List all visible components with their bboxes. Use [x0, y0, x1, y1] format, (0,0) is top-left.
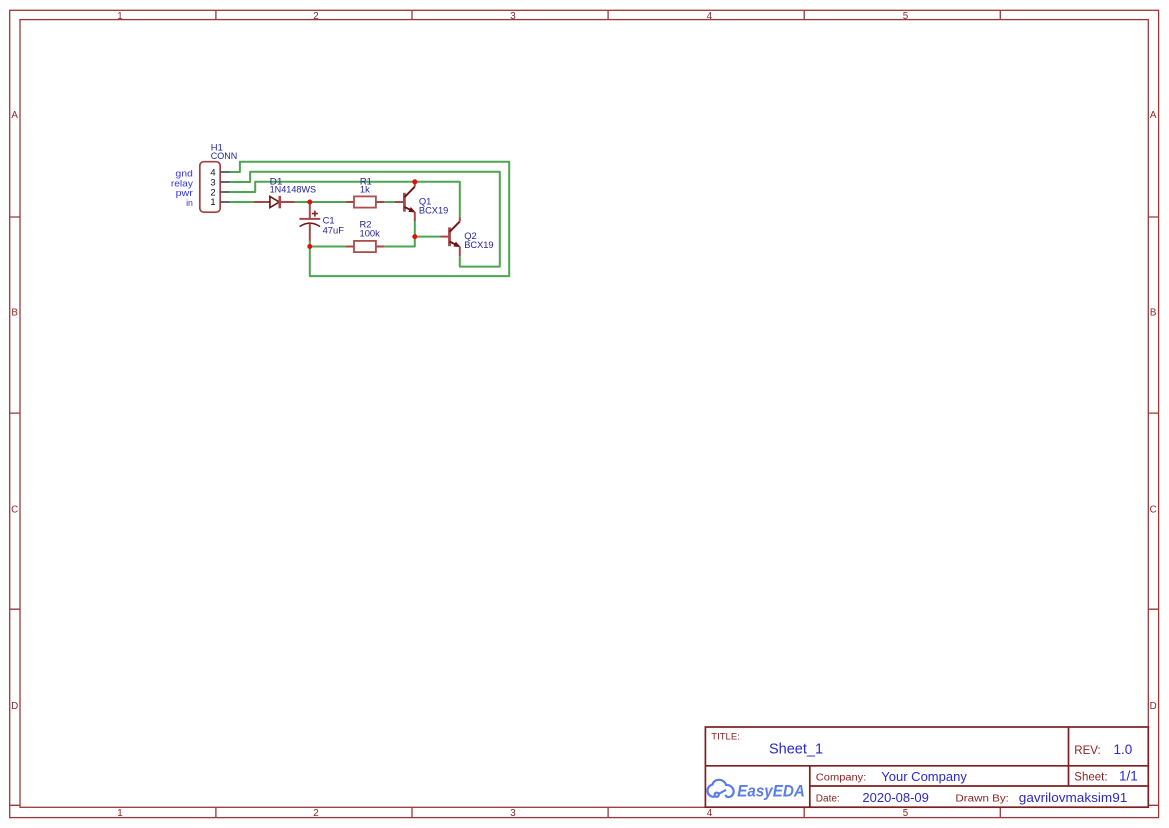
svg-text:Sheet:: Sheet: [1074, 771, 1107, 783]
junction node at Q1 collector / pwr line [412, 179, 417, 184]
pin 2 stub [220, 191, 229, 193]
junction node at C1 bottom / R2 left / gnd rail [307, 244, 312, 249]
transistor Q1 [395, 182, 449, 222]
svg-text:47uF: 47uF [323, 225, 345, 236]
svg-text:EasyEDA: EasyEDA [737, 782, 805, 801]
svg-text:in: in [186, 198, 193, 209]
pin 3 stub [220, 181, 229, 183]
svg-text:1/1: 1/1 [1119, 769, 1138, 784]
svg-text:Your Company: Your Company [881, 769, 967, 784]
svg-text:REV:: REV: [1074, 745, 1100, 757]
svg-text:Date:: Date: [816, 793, 840, 804]
svg-text:gavrilovmaksim91: gavrilovmaksim91 [1019, 790, 1128, 805]
svg-text:2: 2 [313, 11, 318, 22]
svg-text:Sheet_1: Sheet_1 [769, 742, 823, 758]
wire diode cathode to R1 left (through node) [295, 201, 347, 203]
svg-text:D: D [11, 701, 18, 712]
svg-text:3: 3 [510, 808, 516, 819]
junction node at D1 cathode / C1 top / R1 left [307, 200, 312, 205]
wire C1 bottom to gnd node [309, 241, 311, 246]
svg-text:5: 5 [903, 11, 909, 22]
title block [705, 727, 1148, 807]
wire R1 right to Q1 base [384, 201, 394, 203]
pin 4 stub [220, 171, 229, 173]
resistor R1 [346, 176, 384, 208]
pin numbers [210, 166, 215, 207]
svg-text:3: 3 [510, 11, 516, 22]
svg-text:Drawn By:: Drawn By: [955, 793, 1009, 804]
svg-text:B: B [11, 308, 18, 319]
svg-text:100k: 100k [360, 228, 381, 239]
svg-text:5: 5 [903, 808, 909, 819]
svg-text:C: C [1150, 504, 1157, 515]
svg-text:4: 4 [707, 11, 713, 22]
wire net in (pin1 to diode) [230, 201, 255, 203]
svg-text:CONN: CONN [211, 150, 238, 161]
connector H1 [200, 142, 238, 213]
svg-text:A: A [11, 110, 18, 121]
wire gnd node to R2 left [310, 246, 346, 248]
resistor R2 [346, 219, 384, 252]
diode D1 [254, 176, 316, 209]
svg-text:1: 1 [117, 808, 122, 819]
svg-text:2020-08-09: 2020-08-09 [862, 790, 929, 805]
svg-text:4: 4 [707, 808, 713, 819]
wire node to Q2 base [415, 236, 441, 238]
svg-text:1: 1 [117, 11, 122, 22]
capacitor C1 [299, 202, 344, 241]
svg-text:1.0: 1.0 [1114, 742, 1133, 757]
plus polarity mark [312, 211, 318, 217]
transistor Q2 [441, 218, 494, 257]
wire Q1 emitter to R2 right (through node) [384, 221, 415, 246]
svg-text:1k: 1k [360, 184, 370, 195]
wire net pwr (pin2 to Q2 collector, through Q1 collector node) [230, 182, 460, 218]
svg-text:D: D [1150, 701, 1157, 712]
EasyEDA logo [708, 780, 734, 797]
svg-text:BCX19: BCX19 [464, 239, 493, 250]
junction node at Q1 emitter / Q2 base / R2 right [412, 234, 417, 239]
pin 1 stub [220, 201, 229, 203]
wire net gnd (pin4 to bottom rail) [230, 162, 510, 276]
svg-text:1: 1 [210, 196, 215, 207]
svg-text:1N4148WS: 1N4148WS [270, 184, 317, 195]
svg-text:B: B [1150, 308, 1157, 319]
svg-text:A: A [1150, 110, 1157, 121]
wire net relay (pin3 to Q2 emitter) [230, 172, 500, 267]
svg-text:2: 2 [313, 808, 318, 819]
svg-text:Company:: Company: [816, 772, 867, 783]
svg-text:TITLE:: TITLE: [711, 732, 740, 743]
svg-text:C: C [11, 504, 18, 515]
svg-text:BCX19: BCX19 [419, 205, 448, 216]
